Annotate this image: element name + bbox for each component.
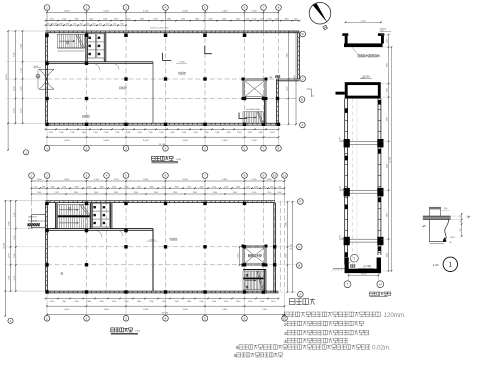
svg-text:1,800: 1,800 [266, 179, 272, 181]
svg-text:2100: 2100 [270, 132, 274, 134]
svg-text:1800: 1800 [114, 19, 118, 21]
svg-text:2,700: 2,700 [54, 192, 59, 194]
svg-text:3.: 3. [284, 331, 288, 337]
svg-text:1800: 1800 [167, 19, 171, 21]
svg-text:3,900: 3,900 [64, 140, 70, 142]
svg-text:1500: 1500 [267, 19, 271, 21]
svg-text:1500: 1500 [260, 301, 264, 303]
svg-text:2083: 2083 [284, 19, 288, 21]
svg-text:2100: 2100 [89, 19, 93, 21]
svg-text:1500: 1500 [294, 19, 298, 21]
svg-text:6,600: 6,600 [143, 140, 149, 142]
svg-text:1,500: 1,500 [14, 235, 16, 240]
svg-text:3,000: 3,000 [37, 179, 43, 181]
svg-text:5,200: 5,200 [251, 10, 257, 12]
svg-text:6,600: 6,600 [104, 309, 110, 311]
svg-text:4.: 4. [284, 339, 288, 345]
svg-text:250: 250 [99, 23, 102, 25]
svg-text:11: 11 [283, 174, 286, 178]
svg-text:900: 900 [247, 186, 250, 188]
svg-text:1500: 1500 [37, 192, 41, 194]
svg-text:15,900: 15,900 [390, 156, 392, 163]
svg-text:B7B6: B7B6 [28, 228, 33, 230]
svg-text:2100: 2100 [153, 19, 157, 21]
svg-text:2100: 2100 [99, 301, 103, 303]
svg-text:5,200: 5,200 [251, 140, 257, 142]
svg-text:1500: 1500 [59, 132, 63, 134]
svg-text:2100: 2100 [212, 186, 216, 188]
svg-text:6,600: 6,600 [143, 179, 149, 181]
svg-text:6,600: 6,600 [64, 309, 70, 311]
svg-text:3,900: 3,900 [64, 10, 70, 12]
svg-text:120mm.: 120mm. [384, 312, 407, 319]
svg-text:B: B [298, 264, 300, 268]
svg-text:1800: 1800 [140, 19, 144, 21]
svg-text:6,600: 6,600 [143, 10, 149, 12]
svg-text:2,050: 2,050 [238, 254, 240, 258]
svg-text:1800: 1800 [195, 19, 199, 21]
svg-text:2100: 2100 [115, 132, 119, 134]
svg-text:2,100: 2,100 [252, 192, 257, 194]
svg-text:3300: 3300 [94, 192, 98, 194]
svg-text:2183: 2183 [287, 87, 289, 91]
svg-text:900: 900 [246, 19, 249, 21]
svg-text:6,600: 6,600 [222, 179, 228, 181]
svg-text:1800: 1800 [150, 186, 154, 188]
svg-text:8.300: 8.300 [339, 137, 341, 142]
svg-text:6.: 6. [234, 353, 238, 358]
svg-text:150: 150 [460, 229, 462, 232]
svg-text:2,183: 2,183 [9, 276, 11, 281]
svg-text:2100: 2100 [208, 19, 212, 21]
svg-text:6,700: 6,700 [262, 309, 268, 311]
svg-text:7,000: 7,000 [360, 20, 366, 22]
svg-text:6,600: 6,600 [64, 179, 70, 181]
svg-text:2,183: 2,183 [9, 253, 11, 258]
svg-text:=2850: =2850 [58, 23, 63, 25]
svg-text:3,100: 3,100 [94, 179, 100, 181]
svg-text:14,400: 14,400 [3, 242, 5, 249]
svg-text:1800: 1800 [258, 132, 262, 134]
svg-text:14,400: 14,400 [294, 74, 296, 81]
svg-text:1200: 1200 [386, 39, 388, 43]
svg-text:10: 10 [273, 174, 277, 178]
svg-text:A: A [299, 292, 301, 296]
svg-text:1500: 1500 [62, 301, 66, 303]
svg-text:3300: 3300 [173, 192, 177, 194]
svg-text:3900: 3900 [386, 117, 388, 121]
svg-text:1500: 1500 [106, 23, 110, 25]
svg-text:2100: 2100 [224, 301, 228, 303]
svg-text:15.900: 15.900 [380, 28, 387, 30]
svg-text:3300: 3300 [154, 192, 158, 194]
svg-text:1200: 1200 [254, 186, 258, 188]
svg-text:1800: 1800 [74, 19, 78, 21]
svg-text:1500: 1500 [278, 186, 282, 188]
svg-text:50: 50 [460, 216, 462, 218]
svg-text:1500: 1500 [104, 132, 108, 134]
svg-text:2,100: 2,100 [14, 254, 16, 258]
svg-text:2,183: 2,183 [13, 86, 15, 91]
svg-text:2100: 2100 [248, 301, 252, 303]
svg-text:1500: 1500 [112, 301, 116, 303]
svg-text:1500: 1500 [50, 19, 54, 21]
svg-text:1800: 1800 [170, 132, 174, 134]
svg-text:1: 1 [354, 256, 356, 260]
svg-text:14,400: 14,400 [6, 73, 8, 80]
svg-text:1,000: 1,000 [277, 192, 282, 194]
svg-text:-1.700: -1.700 [363, 264, 371, 268]
svg-text:3,100: 3,100 [114, 179, 120, 181]
svg-text:2083: 2083 [286, 222, 288, 226]
svg-text:1800: 1800 [87, 301, 91, 303]
svg-text:2100: 2100 [49, 132, 53, 134]
svg-text:280x150: 280x150 [51, 23, 58, 25]
svg-text:1500: 1500 [125, 186, 129, 188]
svg-text:1: 1 [449, 262, 453, 269]
svg-text:1500: 1500 [103, 19, 107, 21]
svg-text:2100: 2100 [226, 132, 230, 134]
svg-text:2,183: 2,183 [13, 109, 15, 114]
svg-text:1500: 1500 [252, 19, 256, 21]
svg-text:1200: 1200 [270, 186, 274, 188]
svg-text:2100: 2100 [93, 132, 97, 134]
svg-text:1:20: 1:20 [433, 263, 439, 267]
svg-text:1.: 1. [282, 313, 286, 319]
svg-text:1800: 1800 [236, 301, 240, 303]
svg-text:b=1300h=2640: b=1300h=2640 [246, 109, 260, 111]
svg-text:2100: 2100 [162, 186, 166, 188]
svg-text:6,600: 6,600 [103, 10, 109, 12]
svg-text:7: 7 [347, 282, 349, 286]
svg-text:3300: 3300 [193, 192, 197, 194]
svg-text:30: 30 [460, 221, 462, 223]
svg-text:2100: 2100 [174, 301, 178, 303]
svg-text:7,300: 7,300 [9, 221, 11, 226]
svg-text:2100: 2100 [124, 301, 128, 303]
svg-text:1500: 1500 [86, 23, 90, 25]
svg-text:2100: 2100 [87, 186, 91, 188]
svg-text:250: 250 [73, 23, 76, 25]
svg-text:2,100: 2,100 [14, 276, 16, 281]
svg-text:1800: 1800 [200, 186, 204, 188]
svg-text:2100: 2100 [187, 186, 191, 188]
svg-text:2.: 2. [284, 322, 288, 328]
svg-text:2100: 2100 [248, 132, 252, 134]
svg-text:A: A [301, 123, 303, 127]
svg-text:1800: 1800 [187, 301, 191, 303]
svg-text:6,600: 6,600 [143, 309, 149, 311]
svg-text:3300: 3300 [134, 192, 138, 194]
svg-text:1060: 1060 [66, 23, 70, 25]
svg-text:3300: 3300 [114, 192, 118, 194]
svg-text:3,300: 3,300 [21, 44, 23, 49]
svg-text:2100: 2100 [112, 186, 116, 188]
svg-text:6,600: 6,600 [182, 10, 188, 12]
svg-text:3300: 3300 [74, 192, 78, 194]
svg-text:GMW Ra7: GMW Ra7 [28, 217, 37, 219]
svg-text:250: 250 [47, 23, 50, 25]
svg-text:1800: 1800 [236, 19, 240, 21]
svg-text:6,600: 6,600 [183, 179, 189, 181]
svg-text:2100: 2100 [42, 186, 46, 188]
svg-text:4000x2 R6: 4000x2 R6 [28, 220, 37, 222]
svg-text:1800: 1800 [137, 301, 141, 303]
svg-text:2100: 2100 [137, 186, 141, 188]
svg-text:3600: 3600 [386, 63, 388, 67]
svg-text:2083: 2083 [287, 53, 289, 57]
svg-text:6,600: 6,600 [183, 309, 189, 311]
svg-text:3,100: 3,100 [251, 179, 257, 181]
svg-text:1500: 1500 [75, 186, 79, 188]
svg-text:900: 900 [263, 186, 266, 188]
svg-text:5.: 5. [236, 345, 240, 350]
svg-text:2100: 2100 [50, 301, 54, 303]
svg-text:B: B [301, 98, 303, 102]
svg-text:2,850x150=2850 1,060: 2,850x150=2850 1,060 [150, 28, 168, 30]
svg-text:1500: 1500 [175, 186, 179, 188]
svg-text:250: 250 [113, 23, 116, 25]
svg-text:1800: 1800 [126, 132, 130, 134]
svg-text:2100: 2100 [126, 19, 130, 21]
svg-text:6,600: 6,600 [103, 140, 109, 142]
svg-text:2100: 2100 [149, 301, 153, 303]
svg-text:14,400: 14,400 [291, 243, 293, 250]
svg-text:4500: 4500 [386, 253, 388, 257]
svg-text:30,400: 30,400 [361, 274, 367, 276]
svg-text:2183: 2183 [286, 254, 288, 258]
svg-text:2,100: 2,100 [21, 87, 23, 92]
svg-text:3300: 3300 [233, 192, 237, 194]
svg-text:900: 900 [80, 23, 83, 25]
svg-text:1500: 1500 [212, 301, 216, 303]
svg-text:2100: 2100 [74, 301, 78, 303]
svg-text:1,100: 1,100 [267, 192, 272, 194]
svg-text:1:100: 1:100 [135, 331, 141, 333]
svg-text:1500: 1500 [237, 132, 241, 134]
svg-text:2400: 2400 [34, 66, 38, 68]
svg-text:2083: 2083 [236, 186, 240, 188]
svg-text:6,600: 6,600 [222, 140, 228, 142]
svg-text:1500: 1500 [224, 186, 228, 188]
svg-text:1800: 1800 [51, 186, 55, 188]
svg-text:1:100: 1:100 [176, 159, 182, 161]
svg-text:2100: 2100 [159, 132, 163, 134]
svg-text:6,600: 6,600 [182, 140, 188, 142]
svg-text:2100: 2100 [182, 132, 186, 134]
svg-text:1500: 1500 [148, 132, 152, 134]
svg-text:900: 900 [34, 186, 37, 188]
svg-text:2100: 2100 [62, 186, 66, 188]
svg-text:6,600: 6,600 [222, 309, 228, 311]
svg-text:F: F [299, 200, 301, 204]
svg-text:3900: 3900 [386, 213, 388, 217]
svg-text:6,600: 6,600 [222, 10, 228, 12]
svg-text:2100: 2100 [62, 19, 66, 21]
svg-text:4.500: 4.500 [339, 186, 341, 191]
svg-text:900: 900 [121, 23, 124, 25]
svg-text:3300: 3300 [213, 192, 217, 194]
svg-text:1800: 1800 [82, 132, 86, 134]
svg-text:1.5t: 1.5t [269, 76, 273, 79]
svg-text:1800: 1800 [100, 186, 104, 188]
svg-text:3,300: 3,300 [14, 212, 16, 217]
svg-text:2100: 2100 [199, 301, 203, 303]
svg-text:3900: 3900 [386, 164, 388, 168]
svg-text:1500: 1500 [193, 132, 197, 134]
svg-text:2100: 2100 [271, 301, 275, 303]
svg-text:2100: 2100 [181, 19, 185, 21]
svg-text:2100: 2100 [137, 132, 141, 134]
svg-text:2100: 2100 [70, 132, 74, 134]
svg-text:7,300: 7,300 [13, 53, 15, 58]
svg-text:1800: 1800 [215, 132, 219, 134]
svg-text:900: 900 [93, 23, 96, 25]
svg-text:1500: 1500 [222, 19, 226, 21]
svg-text:1,500: 1,500 [21, 68, 23, 73]
svg-text:0.02m.: 0.02m. [372, 345, 391, 352]
svg-text:2,100: 2,100 [21, 109, 23, 114]
svg-text:0.300: 0.300 [339, 235, 341, 240]
svg-text:1350: 1350 [386, 88, 388, 92]
